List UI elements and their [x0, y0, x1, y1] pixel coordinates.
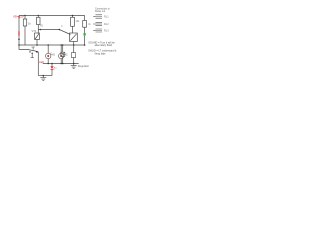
LED VD4 red [51, 64, 56, 76]
svg-text:RL3: RL3 [104, 30, 109, 33]
svg-text:alternately flash: alternately flash [95, 44, 113, 47]
node mid bus led2 [60, 44, 62, 46]
wire base line [38, 30, 70, 35]
wire mid bus [19, 44, 85, 46]
wire Q1 emitter to mid bus [36, 40, 38, 46]
node mid bus box2 [73, 44, 75, 46]
svg-text:a: a [55, 68, 57, 70]
wire box2 branch bottom [73, 58, 75, 64]
node mid bus left [18, 44, 20, 46]
svg-text:firing fade: firing fade [95, 52, 107, 55]
svg-text:Relay out: Relay out [95, 10, 105, 13]
wire top rail [19, 15, 85, 17]
wire battery branch bottom [62, 56, 64, 63]
battery GB [61, 52, 65, 56]
node RA top [72, 15, 74, 17]
svg-text:Regulator: Regulator [78, 64, 89, 68]
node on left vertical [18, 39, 20, 41]
node R1 top [24, 15, 25, 16]
node base line right [59, 29, 61, 31]
red tick top of left vertical [18, 16, 21, 19]
node rail2 led2 [60, 63, 62, 65]
svg-text:H1: H1 [52, 54, 56, 56]
wire left vertical from rail [18, 16, 20, 46]
wire RB to LED green [84, 27, 86, 33]
ground G1 [71, 64, 77, 69]
connector K2 [93, 22, 102, 25]
wire below R2 to Q1 [37, 25, 39, 33]
svg-text:R2: R2 [40, 26, 44, 28]
connector K3 [93, 29, 102, 32]
connector K1 [93, 15, 102, 18]
node rail2 led1 [47, 63, 49, 65]
svg-text:RL1: RL1 [104, 16, 109, 19]
pushbutton actuator arrow [31, 52, 34, 57]
resistor R1 [23, 19, 26, 26]
svg-text:1k: 1k [28, 21, 31, 25]
wire switch branch left [19, 45, 29, 49]
resistor RB [83, 21, 87, 28]
node rail2 ground [73, 63, 75, 65]
wire box2 branch top [73, 45, 75, 53]
svg-text:VT1: VT1 [32, 29, 37, 33]
wire RA branch [72, 16, 74, 18]
wire below R1 [24, 26, 26, 45]
resistor R2 [37, 17, 40, 24]
wire below RA to Q2 [72, 26, 74, 33]
svg-text:b: b [61, 26, 63, 28]
node R2 top [38, 15, 39, 16]
wire switch to bottom rail [37, 52, 39, 75]
node mid bus Q1 [36, 44, 38, 46]
wire rail2 [43, 63, 79, 65]
node mid bus right [84, 44, 86, 46]
LED green [84, 33, 86, 36]
pushbutton SB [28, 47, 38, 53]
LED VD3 red segment on left vertical [18, 31, 19, 35]
node rail3 [43, 75, 45, 77]
wire right vertical from rail corner [84, 16, 86, 21]
node Q1 base junction [40, 29, 42, 31]
node mid bus battery [62, 44, 64, 46]
svg-text:H2: H2 [65, 54, 69, 56]
svg-text:1k: 1k [88, 23, 91, 26]
wire green LED to mid bus [84, 36, 86, 45]
svg-text:VD=12V: VD=12V [13, 14, 24, 18]
ground G2 [40, 76, 46, 81]
transistor Q1 [35, 33, 40, 40]
lamp H2 [59, 45, 66, 64]
wire Q2 emitter to mid bus [73, 42, 75, 46]
node rail2 led3 [51, 63, 53, 65]
node mid bus led1 [47, 44, 49, 46]
node rail2 battery [62, 63, 64, 65]
svg-text:10k: 10k [76, 21, 81, 23]
lamp H1 [46, 45, 53, 64]
component box2 [71, 53, 75, 58]
resistor RA [71, 17, 75, 26]
wire battery branch top [62, 45, 64, 52]
transistor Q2 [70, 33, 78, 42]
wire rail3 [38, 75, 52, 77]
wire R1 branch [24, 16, 26, 20]
wire R2 branch [37, 16, 39, 18]
svg-text:RL2: RL2 [104, 23, 109, 26]
